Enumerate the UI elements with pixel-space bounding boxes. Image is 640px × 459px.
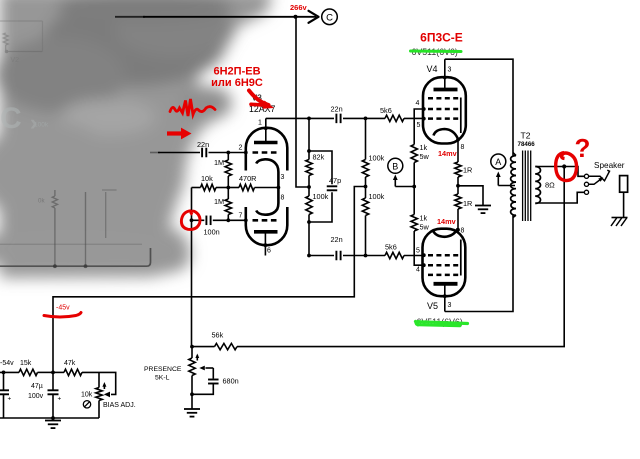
V3 grid lower (pin 7) — [253, 219, 278, 222]
resistor 100k upper-right — [365, 118, 367, 159]
node presence bottom — [190, 392, 194, 396]
V4 pin 4 node — [422, 107, 426, 111]
wire V5 plate run — [445, 215, 513, 312]
chassis ground speaker — [612, 217, 628, 219]
wire 10k to junction — [216, 187, 227, 189]
wire node B stub — [395, 186, 414, 188]
svg-text:470R: 470R — [239, 174, 256, 183]
svg-text:5w: 5w — [420, 222, 430, 231]
node cathode bias junction — [226, 186, 230, 190]
svg-text:C: C — [326, 12, 333, 23]
jack tip contact — [589, 170, 610, 181]
svg-text:Speaker: Speaker — [594, 161, 625, 170]
svg-text:4: 4 — [416, 100, 420, 107]
node bias mid junction — [364, 185, 368, 189]
tube V4 envelope (6P3S-E beam tetrode) — [423, 77, 466, 143]
wire input — [158, 152, 200, 154]
svg-text:56k: 56k — [212, 331, 224, 340]
node V3 cathodes junction — [277, 186, 281, 190]
wire V4 plate run — [445, 59, 513, 155]
svg-text:?: ? — [575, 133, 591, 163]
capacitor input electrolytic (edge) — [3, 372, 5, 390]
svg-text:47µ: 47µ — [31, 383, 43, 390]
svg-text:100k: 100k — [369, 154, 385, 163]
jack contact ring 3 — [584, 190, 588, 194]
svg-text:100k: 100k — [34, 122, 49, 129]
svg-text:6П3С-Е: 6П3С-Е — [420, 31, 463, 45]
node presence junction — [190, 345, 194, 349]
red circle around speaker node — [556, 153, 577, 181]
V3 plate lower (pin 6) — [254, 230, 278, 234]
svg-text:22n: 22n — [331, 105, 343, 114]
capacitor 47u 100v — [52, 372, 54, 390]
svg-text:266v: 266v — [290, 3, 308, 12]
tube V5 envelope (6P3S-E beam tetrode) — [423, 229, 466, 297]
svg-text:PRESENCE: PRESENCE — [144, 366, 182, 373]
ghost wires of faded tone stack — [0, 243, 142, 245]
potentiometer PRESENCE 5K-L — [191, 347, 193, 358]
svg-text:1: 1 — [258, 120, 262, 127]
wire plate column upper — [308, 118, 310, 151]
wire secondary bottom — [535, 192, 584, 203]
svg-text:C: C — [0, 102, 22, 135]
svg-text:V5: V5 — [427, 301, 438, 311]
wire NFB riser top corner — [192, 187, 201, 189]
svg-text:8: 8 — [281, 195, 285, 202]
svg-text:7: 7 — [239, 213, 243, 220]
V4 grid rows — [428, 97, 460, 100]
svg-text:10k: 10k — [81, 392, 93, 399]
wire input (emerging from blob) — [150, 152, 160, 154]
V3 grid upper (pin 2) — [253, 151, 278, 154]
svg-text:0k: 0k — [38, 198, 45, 205]
node cathode return — [456, 184, 460, 188]
svg-text:1R: 1R — [463, 199, 472, 208]
svg-text:5: 5 — [417, 122, 421, 129]
red circle around NFB node — [181, 211, 200, 230]
wire presence ground — [191, 394, 193, 409]
jack contact ring 1 — [584, 174, 588, 178]
wire bias row — [0, 371, 19, 373]
resistor 5k6 upper — [366, 117, 386, 119]
wire secondary top — [535, 167, 584, 177]
resistor 15k — [19, 369, 38, 375]
V5 pin 4 node — [422, 263, 426, 267]
svg-text:100k: 100k — [313, 192, 329, 201]
wire B+ drop to plate loads — [296, 17, 309, 187]
wire bias tap — [53, 187, 366, 373]
wire V4 screen feed — [414, 109, 424, 145]
resistor 1k 5W lower — [413, 187, 415, 215]
resistor 100k left-lower — [306, 196, 312, 215]
wire plate V3b column — [308, 222, 310, 256]
ground cathode — [475, 205, 491, 207]
transformer T2 core — [522, 151, 524, 222]
svg-text:1M: 1M — [214, 197, 224, 206]
svg-text:10k: 10k — [201, 174, 213, 183]
red arrow over V3 label — [249, 91, 269, 106]
resistor 1M lower — [227, 188, 229, 200]
V4 plate (pin 3) — [444, 59, 446, 89]
wire NFB riser — [191, 188, 193, 347]
svg-text:1M: 1M — [214, 158, 224, 167]
svg-text:100v: 100v — [28, 393, 44, 400]
svg-text:22n: 22n — [331, 235, 343, 244]
resistor 1k 5W upper — [411, 145, 417, 163]
presence indicator arrow — [196, 355, 198, 361]
node A — [491, 154, 506, 169]
node B — [388, 158, 403, 173]
svg-text:8Ω: 8Ω — [545, 181, 555, 190]
svg-text:или 6Н9С: или 6Н9С — [211, 77, 263, 89]
wire 266v supply rail (dimmed under blob) — [115, 16, 145, 18]
V5 plate (pin 3) — [434, 282, 458, 286]
node grid V3a — [226, 151, 230, 155]
node lower coupling — [307, 254, 311, 258]
resistor 82k — [308, 151, 310, 160]
wire bias bottom row — [0, 417, 99, 419]
svg-text:100n: 100n — [204, 227, 220, 236]
svg-text:3: 3 — [448, 67, 452, 74]
svg-text:1k: 1k — [420, 143, 428, 152]
node bias ground — [51, 416, 55, 420]
svg-text:5k6: 5k6 — [380, 106, 392, 115]
tube V3 envelope (12AX7 dual triode) — [246, 128, 287, 171]
node 266v junction — [294, 15, 298, 19]
transformer T2 secondary winding — [535, 167, 540, 174]
V5 pin 5 node — [422, 253, 426, 257]
node bias mid — [51, 371, 55, 375]
svg-text:8: 8 — [461, 144, 465, 151]
svg-text:6Н2П-ЕВ: 6Н2П-ЕВ — [213, 66, 260, 78]
node upper grid line — [364, 117, 368, 121]
svg-text:82k: 82k — [313, 153, 325, 162]
resistor 56k — [215, 343, 238, 349]
resistor 100k lower-right — [365, 187, 367, 199]
V3 plate upper (pin 1) — [265, 118, 267, 142]
capacitor 22n input — [201, 148, 203, 158]
ghost resistor and V2 label (faded schematic under blob) — [0, 21, 43, 64]
ground bias — [45, 420, 61, 422]
wire node to 100n — [192, 219, 205, 221]
resistor 1R lower — [457, 186, 459, 194]
svg-text:14mv: 14mv — [437, 217, 457, 226]
svg-text:3: 3 — [281, 174, 285, 181]
node B+ feed junction — [307, 185, 311, 189]
svg-text:15k: 15k — [20, 360, 32, 367]
V4 cathode (pin 8) — [434, 129, 458, 139]
svg-text:-54v: -54v — [0, 360, 14, 367]
capacitor 100n — [205, 216, 207, 226]
resistor 10k — [201, 184, 217, 190]
V4 pin 5 node — [422, 117, 426, 121]
wire jack sleeve — [623, 192, 625, 217]
svg-text:1R: 1R — [463, 166, 472, 175]
svg-text:5K-L: 5K-L — [155, 375, 170, 382]
node plate V3b junction — [307, 220, 311, 224]
node lower grid line — [364, 254, 368, 258]
V5 beam plate line — [460, 240, 462, 276]
jack switch arm — [589, 179, 602, 185]
wire feedback run — [237, 167, 564, 347]
svg-text:3: 3 — [448, 302, 452, 309]
node feedback tap — [562, 164, 566, 168]
resistor 1M upper — [227, 153, 229, 161]
wire V3a plate to loads — [266, 117, 309, 119]
svg-text:4: 4 — [416, 267, 420, 274]
svg-text:5k6: 5k6 — [385, 243, 397, 252]
jack contact ring 2 — [584, 182, 588, 186]
resistor 5k6 lower — [366, 255, 386, 257]
transformer T2 primary winding — [513, 153, 516, 156]
wire cathode ground run — [458, 186, 483, 206]
node grid V3b — [226, 218, 230, 222]
potentiometer 10k bias — [98, 372, 100, 387]
node plate V3a — [307, 117, 311, 121]
wire 266v supply rail — [143, 16, 316, 18]
svg-text:8: 8 — [461, 228, 465, 235]
svg-text:V2: V2 — [11, 57, 20, 64]
V3 cathode upper (pin 3) — [256, 159, 278, 187]
svg-text:47p: 47p — [329, 176, 341, 185]
V3 cathode lower (pin 8) — [256, 188, 278, 215]
svg-text:+: + — [58, 396, 62, 403]
capacitor 47p branch — [309, 151, 332, 184]
svg-text:14mv: 14mv — [438, 149, 458, 158]
V5 cathode (pin 8) — [433, 229, 458, 237]
svg-text:-45v: -45v — [56, 305, 70, 312]
node 47p tap — [307, 149, 311, 153]
capacitor 680n — [208, 379, 219, 381]
svg-text:5: 5 — [416, 248, 420, 255]
resistor 47k — [53, 371, 64, 373]
bias wiper loop — [99, 372, 116, 394]
node A marker — [498, 185, 515, 187]
svg-text:5w: 5w — [420, 152, 430, 161]
capacitor 22n upper coupling — [309, 117, 334, 119]
capacitor 22n lower coupling — [309, 255, 334, 257]
svg-text:680n: 680n — [223, 377, 239, 386]
svg-text:47k: 47k — [64, 360, 76, 367]
svg-text:A: A — [495, 157, 501, 167]
jack body — [620, 176, 628, 193]
svg-text:+: + — [8, 396, 12, 403]
svg-text:BIAS ADJ.: BIAS ADJ. — [103, 402, 136, 409]
node C — [322, 9, 338, 25]
svg-text:78466: 78466 — [518, 141, 536, 148]
svg-text:1k: 1k — [420, 214, 428, 223]
node B marker arrow — [394, 177, 396, 187]
node B junction — [412, 185, 416, 189]
presence wiper — [206, 367, 214, 369]
red -45v underline — [44, 313, 81, 318]
red annotation squiggle — [170, 99, 215, 116]
wire bias ground stem — [52, 418, 54, 421]
resistor 1R upper — [457, 140, 459, 162]
svg-text:B: B — [392, 161, 398, 171]
svg-text:6: 6 — [267, 248, 271, 255]
V4 beam plate line — [460, 98, 462, 134]
svg-text:2: 2 — [239, 145, 243, 152]
svg-text:T2: T2 — [521, 131, 531, 141]
ground presence — [184, 408, 200, 410]
svg-text:100k: 100k — [369, 192, 385, 201]
red annotation arrow — [167, 131, 183, 135]
bias adjust symbol — [83, 401, 90, 408]
svg-text:V4: V4 — [427, 64, 438, 74]
node NFB injection (red circled) — [190, 218, 194, 222]
bias indicator arrow — [103, 384, 105, 389]
svg-text:22n: 22n — [197, 140, 209, 149]
resistor 470R — [228, 187, 239, 189]
V5 grid rows — [428, 254, 460, 257]
